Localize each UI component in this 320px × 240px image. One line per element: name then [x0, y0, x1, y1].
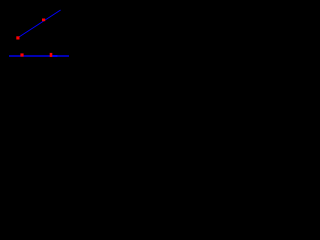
background	[0, 0, 77, 93]
floor line (horizontal ground)	[9, 55, 69, 57]
red block C (on floor, left)	[20, 53, 23, 56]
red block D (on floor, right)	[50, 53, 53, 57]
bright floor segment right of block D	[53, 55, 58, 57]
red block A (bottom of ramp)	[16, 36, 19, 39]
red block B (on ramp)	[42, 19, 45, 22]
ramp line (diagonal incline)	[18, 10, 61, 38]
